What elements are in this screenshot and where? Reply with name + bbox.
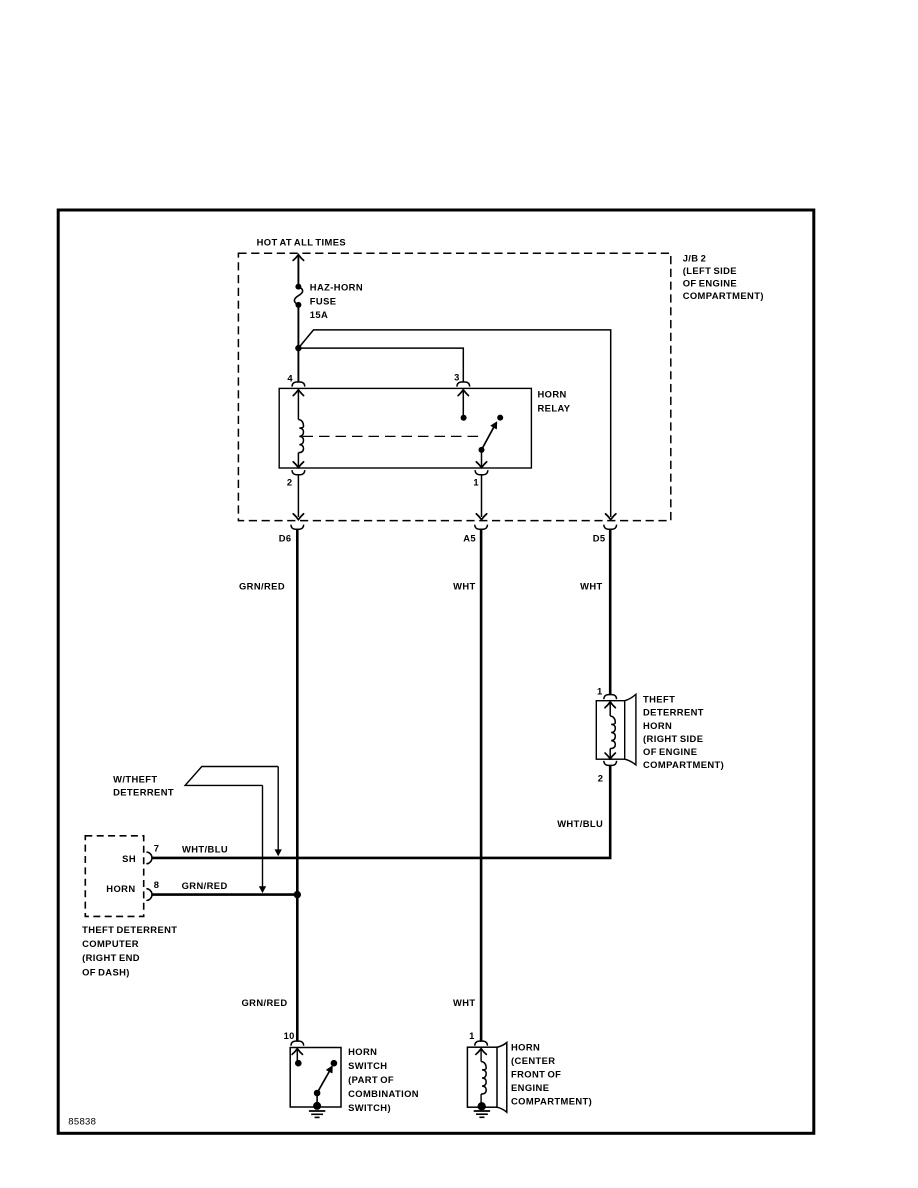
theft deterrent computer dashed box xyxy=(85,836,143,917)
wire computer pin 8 GRN/RED xyxy=(152,893,297,896)
svg-text:ENGINE: ENGINE xyxy=(511,1082,549,1093)
svg-text:(CENTER: (CENTER xyxy=(511,1055,555,1066)
arrow at connector A5 xyxy=(476,514,486,520)
option branch wire to GRN/RED xyxy=(259,785,266,893)
connector A5 xyxy=(475,525,488,530)
relay switch blade xyxy=(482,422,497,450)
node horn switch contact xyxy=(295,1060,302,1067)
label GRN/RED (computer) xyxy=(182,880,228,891)
svg-text:HORN: HORN xyxy=(538,389,567,400)
label WHT/BLU (right) xyxy=(557,818,603,829)
connector computer pin 8 xyxy=(147,889,153,901)
wire fuse to junction node xyxy=(297,305,299,348)
label theft horn pin 2 xyxy=(598,772,604,783)
wire WHT A5 down to horn xyxy=(480,529,483,1041)
connector relay pin 4 xyxy=(292,382,305,387)
label relay pin 1 xyxy=(473,476,479,487)
svg-text:COMBINATION: COMBINATION xyxy=(348,1088,419,1099)
svg-text:COMPARTMENT): COMPARTMENT) xyxy=(683,290,764,301)
relay pin 3 terminal arrow xyxy=(458,390,468,396)
label J/B 2 (LEFT SIDE OF ENGINE COMPARTMENT) xyxy=(683,253,764,302)
svg-text:THEFT: THEFT xyxy=(643,694,675,705)
wire relay pivot to pin 1 xyxy=(481,450,483,467)
svg-text:OF ENGINE: OF ENGINE xyxy=(643,746,697,757)
node horn switch ground dot xyxy=(313,1102,321,1110)
label pin 8 xyxy=(154,879,160,890)
connector relay pin 2 xyxy=(292,470,305,475)
node relay switch pivot xyxy=(479,447,485,453)
wire relay pin3 to contact xyxy=(462,390,464,417)
connector D5 xyxy=(604,525,617,530)
svg-text:WHT/BLU: WHT/BLU xyxy=(557,818,603,829)
horn terminal arrow xyxy=(476,1049,486,1055)
svg-text:THEFT DETERRENT: THEFT DETERRENT xyxy=(82,924,177,935)
svg-text:COMPARTMENT): COMPARTMENT) xyxy=(643,759,724,770)
relay box HORN RELAY xyxy=(279,388,531,468)
border frame xyxy=(58,210,814,1133)
connector theft horn pin 2 xyxy=(604,761,617,766)
wire junction to relay pin 4 xyxy=(297,348,299,382)
node horn switch pivot xyxy=(314,1090,321,1097)
arrow hot feed xyxy=(293,255,303,261)
svg-text:OF ENGINE: OF ENGINE xyxy=(683,278,737,289)
arrow at connector D5 xyxy=(606,514,616,520)
svg-text:HOT AT ALL TIMES: HOT AT ALL TIMES xyxy=(257,237,346,248)
svg-text:W/THEFT: W/THEFT xyxy=(113,774,157,785)
option flag W/THEFT DETERRENT xyxy=(185,767,278,786)
label HOT AT ALL TIMES xyxy=(257,237,346,248)
label relay pin 2 xyxy=(287,476,293,487)
svg-text:SWITCH): SWITCH) xyxy=(348,1102,391,1113)
svg-text:8: 8 xyxy=(154,879,160,890)
svg-text:FRONT OF: FRONT OF xyxy=(511,1069,561,1080)
wire coil to relay pin 2 xyxy=(297,453,299,467)
label GRN/RED xyxy=(239,580,285,591)
horn switch box xyxy=(290,1048,341,1108)
connector theft horn pin 1 xyxy=(604,695,617,700)
label D6 xyxy=(279,533,292,544)
svg-text:HORN: HORN xyxy=(106,883,135,894)
wire relay pin4 to coil xyxy=(297,390,299,419)
wire horn coil to ground xyxy=(480,1094,482,1106)
connector horn pin 1 xyxy=(475,1041,488,1046)
svg-text:WHT: WHT xyxy=(453,580,476,591)
junction block J/B 2 dashed box xyxy=(238,253,670,520)
svg-text:D5: D5 xyxy=(593,533,606,544)
horn switch blade xyxy=(317,1066,332,1093)
svg-text:OF DASH): OF DASH) xyxy=(82,966,130,977)
wire WHT D5 down to theft deterrent horn xyxy=(609,529,612,694)
svg-text:1: 1 xyxy=(597,685,603,696)
label 85838 xyxy=(68,1117,96,1128)
connector relay pin 3 xyxy=(457,382,470,387)
relay pin 4 terminal arrow xyxy=(293,390,303,396)
svg-text:D6: D6 xyxy=(279,533,292,544)
label theft horn pin 1 xyxy=(597,685,603,696)
theft horn terminal arrow xyxy=(605,702,615,708)
label HORN (CENTER FRONT OF ENGINE COMPARTMENT) xyxy=(511,1042,592,1107)
svg-text:COMPUTER: COMPUTER xyxy=(82,938,139,949)
svg-text:RELAY: RELAY xyxy=(538,402,571,413)
label horn pin 1 xyxy=(469,1030,475,1041)
svg-text:(RIGHT SIDE: (RIGHT SIDE xyxy=(643,733,703,744)
theft horn bottom arrow xyxy=(605,753,615,759)
node horn switch blade contact xyxy=(331,1060,338,1067)
svg-text:10: 10 xyxy=(284,1030,295,1041)
arrow at connector D6 xyxy=(293,514,303,520)
wire horn switch pivot to ground xyxy=(316,1093,318,1106)
node fuse output junction xyxy=(295,345,301,351)
label HORN (computer) xyxy=(106,883,135,894)
svg-text:4: 4 xyxy=(287,373,293,384)
connector computer pin 7 xyxy=(147,852,153,864)
svg-text:GRN/RED: GRN/RED xyxy=(241,997,287,1008)
label D5 xyxy=(593,533,606,544)
svg-text:COMPARTMENT): COMPARTMENT) xyxy=(511,1096,592,1107)
ground (horn switch) xyxy=(309,1111,325,1117)
wire branch to connector D5 xyxy=(298,330,610,517)
svg-text:(RIGHT END: (RIGHT END xyxy=(82,952,140,963)
label GRN/RED (bottom) xyxy=(241,997,287,1008)
svg-text:HAZ-HORN: HAZ-HORN xyxy=(310,282,363,293)
svg-text:HORN: HORN xyxy=(643,720,672,731)
fuse HAZ-HORN 15A xyxy=(294,284,302,308)
wire relay pin 1 to J/B edge xyxy=(481,475,483,517)
svg-text:WHT: WHT xyxy=(580,580,603,591)
svg-text:WHT: WHT xyxy=(453,997,476,1008)
relay pin 1 arrow xyxy=(476,462,486,468)
relay dashed actuation line xyxy=(303,435,481,437)
label relay pin 3 xyxy=(454,372,460,383)
svg-text:3: 3 xyxy=(454,372,460,383)
svg-text:GRN/RED: GRN/RED xyxy=(182,880,228,891)
svg-text:SH: SH xyxy=(122,853,136,864)
horn switch terminal arrow xyxy=(292,1049,302,1055)
label WHT (D5) xyxy=(580,580,603,591)
label HORN RELAY xyxy=(538,389,571,414)
svg-text:2: 2 xyxy=(598,772,604,783)
label WHT/BLU (computer) xyxy=(182,843,228,854)
svg-text:1: 1 xyxy=(469,1030,475,1041)
wire theft horn pin2 to computer pin 7 WHT/BLU xyxy=(152,765,610,858)
svg-text:HORN: HORN xyxy=(348,1046,377,1057)
node relay contact pin3 xyxy=(461,415,467,421)
horn flare xyxy=(497,1043,507,1113)
wire branch to relay pin 3 xyxy=(298,348,463,382)
label A5 xyxy=(463,533,476,544)
svg-text:HORN: HORN xyxy=(511,1042,540,1053)
node relay switch blade contact xyxy=(497,415,503,421)
connector D6 xyxy=(291,525,304,530)
connector horn switch pin 10 xyxy=(291,1041,304,1046)
svg-text:(PART OF: (PART OF xyxy=(348,1074,394,1085)
ground (horn) xyxy=(474,1111,490,1117)
svg-text:1: 1 xyxy=(473,476,479,487)
svg-text:FUSE: FUSE xyxy=(310,295,337,306)
node horn ground dot xyxy=(478,1102,486,1110)
label WHT (A5) xyxy=(453,580,476,591)
label relay pin 4 xyxy=(287,373,293,384)
label SH xyxy=(122,853,136,864)
wire theft horn coil to pin 2 xyxy=(609,749,611,759)
svg-text:2: 2 xyxy=(287,476,293,487)
label horn switch pin 10 xyxy=(284,1030,295,1041)
svg-text:J/B 2: J/B 2 xyxy=(683,253,707,264)
label HAZ-HORN FUSE 15A xyxy=(310,282,363,321)
svg-text:A5: A5 xyxy=(463,533,476,544)
svg-text:7: 7 xyxy=(154,843,160,854)
connector relay pin 1 xyxy=(475,470,488,475)
wire horn terminal to coil xyxy=(480,1049,482,1061)
wire theft horn terminal to coil xyxy=(609,703,611,717)
svg-text:SWITCH: SWITCH xyxy=(348,1060,387,1071)
svg-text:85838: 85838 xyxy=(68,1117,96,1128)
svg-text:DETERRENT: DETERRENT xyxy=(113,786,174,797)
svg-text:GRN/RED: GRN/RED xyxy=(239,580,285,591)
option branch wire to WHT/BLU xyxy=(275,767,282,857)
theft horn coil xyxy=(610,716,615,749)
label WHT (bottom) xyxy=(453,997,476,1008)
horn coil xyxy=(481,1062,486,1095)
wire GRN/RED D6 down to horn switch xyxy=(296,529,299,1041)
svg-text:DETERRENT: DETERRENT xyxy=(643,707,704,718)
label W/THEFT DETERRENT xyxy=(113,774,174,798)
theft horn flare xyxy=(625,694,636,765)
relay coil xyxy=(298,420,303,453)
horn box xyxy=(467,1047,497,1107)
node GRN/RED junction xyxy=(294,891,301,898)
label HORN SWITCH (PART OF COMBINATION SWITCH) xyxy=(348,1046,419,1113)
svg-text:(LEFT SIDE: (LEFT SIDE xyxy=(683,265,737,276)
theft deterrent horn box xyxy=(596,701,624,760)
svg-text:15A: 15A xyxy=(310,309,328,320)
label THEFT DETERRENT HORN (RIGHT SIDE OF ENGINE COMPARTMENT) xyxy=(643,694,724,771)
svg-text:WHT/BLU: WHT/BLU xyxy=(182,843,228,854)
label pin 7 xyxy=(154,843,160,854)
label THEFT DETERRENT COMPUTER (RIGHT END OF DASH) xyxy=(82,924,177,978)
wire relay pin 2 to J/B edge xyxy=(297,475,299,517)
wire hot feed to fuse xyxy=(297,255,299,286)
wire horn switch terminal to contact xyxy=(296,1049,298,1063)
relay coil bottom arrow xyxy=(293,462,303,468)
